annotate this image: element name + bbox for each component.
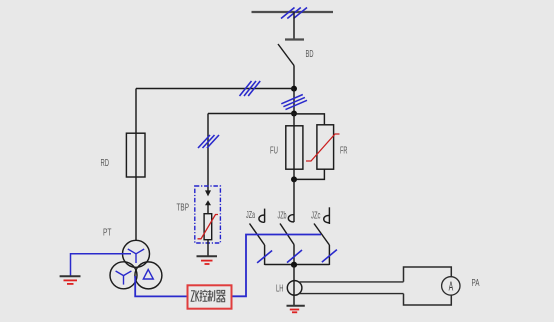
switch blade JZb	[280, 224, 294, 266]
svg-text:JZb: JZb	[278, 211, 287, 222]
wire node D to LH	[293, 265, 295, 306]
svg-text:FR: FR	[340, 146, 348, 157]
label FU	[270, 146, 278, 157]
actuator slash JZb	[287, 250, 302, 263]
wire node A to node B	[293, 89, 295, 114]
ground TBP	[197, 256, 218, 264]
svg-text:BD: BD	[306, 49, 314, 60]
label TBP	[177, 203, 190, 214]
wire varistor to ground	[207, 240, 209, 257]
node A	[291, 86, 297, 92]
wye symbol winding 2	[116, 271, 132, 285]
wire RD branch vertical	[135, 89, 137, 241]
svg-text:PT: PT	[103, 228, 112, 239]
label JZb	[278, 211, 287, 222]
three-phase slashes on busbar	[281, 8, 307, 19]
svg-text:LH: LH	[276, 284, 284, 295]
switch blade JZa	[250, 224, 265, 266]
voltage transformer PT winding 1	[123, 240, 150, 267]
meter box PA	[404, 267, 452, 305]
actuator slash JZa	[257, 251, 272, 263]
fuse FU	[286, 126, 303, 169]
delta symbol winding 3	[143, 270, 153, 280]
wire FR bottom to node C	[294, 169, 324, 179]
voltage transformer PT winding 2	[110, 262, 137, 289]
switch blade JZc	[314, 224, 329, 266]
label BD	[306, 49, 314, 60]
svg-text:A: A	[449, 281, 454, 295]
actuator slash JZc	[322, 250, 337, 263]
busbar	[252, 11, 334, 13]
label PA	[472, 278, 480, 289]
label JZa	[246, 210, 255, 221]
node B	[291, 111, 297, 117]
wire node B to TBP branch	[208, 113, 294, 115]
wire LH to PA lower	[300, 293, 404, 295]
wire node B through FU to node C	[293, 114, 295, 180]
wire node B to FR top	[294, 114, 324, 125]
wire node C to JZb contact	[293, 179, 295, 222]
current transformer LH	[287, 281, 302, 296]
disconnector BD blade	[278, 44, 294, 66]
label LH	[276, 284, 284, 295]
surge arrester TBP dashed enclosure	[195, 186, 221, 243]
controller box ZK	[188, 285, 232, 308]
spark gap arrow up	[205, 200, 211, 214]
label JZc	[311, 211, 321, 222]
contact socket JZc	[324, 207, 330, 224]
wire PT secondary to ZK controller	[135, 276, 187, 296]
thermistor FR red stroke	[306, 134, 340, 161]
thermistor FR body	[317, 125, 334, 169]
ground LH	[287, 306, 305, 313]
ground PT	[60, 276, 81, 284]
svg-text:TBP: TBP	[177, 203, 190, 214]
label PT	[103, 228, 112, 239]
svg-text:JZa: JZa	[246, 210, 255, 221]
disconnector BD fixed contact	[285, 38, 304, 40]
node D	[291, 262, 297, 268]
wire bus to BD	[293, 12, 295, 40]
three-phase slashes on vertical wire	[281, 95, 307, 110]
wire node A to RD branch	[136, 88, 294, 90]
voltage transformer PT winding 3	[135, 262, 162, 289]
wire PT neutral to ground	[71, 254, 132, 276]
svg-text:PA: PA	[472, 278, 480, 289]
ammeter PA	[442, 277, 460, 295]
contact socket JZb	[288, 215, 294, 222]
three-phase slashes on TBP wire	[198, 135, 219, 148]
spark gap arrow down	[205, 190, 211, 196]
wire bottom bus of switches	[265, 264, 330, 266]
svg-text:JZc: JZc	[311, 211, 321, 222]
svg-text:RD: RD	[101, 158, 110, 169]
fuse RD	[126, 133, 145, 177]
svg-text:FU: FU	[270, 146, 278, 157]
varistor red stroke TBP	[198, 215, 219, 239]
label RD	[101, 158, 110, 169]
varistor body TBP	[204, 214, 212, 240]
contact socket JZa	[259, 209, 265, 223]
wire BD to node A	[293, 66, 295, 90]
label ZK controller text	[191, 290, 226, 302]
wye symbol winding 1	[128, 249, 144, 263]
label FR	[340, 146, 348, 157]
three-phase slashes on horizontal wire	[240, 81, 261, 96]
wire LH to PA upper	[300, 281, 404, 283]
wire TBP branch vertical	[207, 114, 209, 192]
node C	[291, 176, 297, 182]
control wire ZK to switches	[232, 235, 322, 297]
